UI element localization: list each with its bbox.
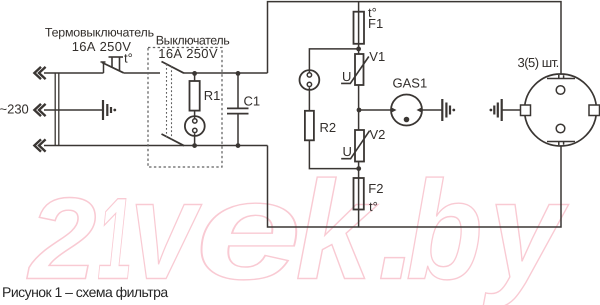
svg-text:16А 250V: 16А 250V — [72, 39, 132, 54]
svg-text:V1: V1 — [369, 49, 385, 64]
svg-text:v: v — [130, 152, 203, 305]
svg-text:k: k — [295, 152, 378, 305]
svg-text:Рисунок 1 – схема фильтра: Рисунок 1 – схема фильтра — [2, 284, 168, 300]
svg-text:F1: F1 — [368, 16, 383, 31]
svg-text:t°: t° — [369, 199, 378, 214]
svg-text:3(5) шт.: 3(5) шт. — [518, 55, 559, 70]
svg-text:b: b — [406, 152, 483, 305]
svg-text:F2: F2 — [368, 181, 383, 196]
svg-text:t°: t° — [124, 51, 133, 66]
svg-text:16А 250V: 16А 250V — [158, 46, 218, 61]
svg-text:U: U — [342, 69, 351, 84]
svg-text:R2: R2 — [320, 120, 337, 135]
svg-text:V2: V2 — [370, 127, 386, 142]
svg-text:y: y — [483, 152, 569, 305]
svg-text:~230: ~230 — [0, 102, 29, 117]
svg-text:C1: C1 — [244, 94, 261, 109]
svg-text:GAS1: GAS1 — [393, 76, 428, 91]
svg-text:Термовыключатель: Термовыключатель — [45, 26, 154, 40]
svg-text:e: e — [196, 152, 302, 305]
svg-text:R1: R1 — [204, 88, 221, 103]
svg-text:U: U — [343, 144, 352, 159]
